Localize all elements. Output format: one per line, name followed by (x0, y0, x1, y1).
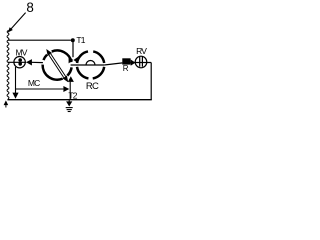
svg-text:MV: MV (16, 47, 28, 57)
svg-text:MC: MC (28, 78, 40, 88)
svg-text:8: 8 (26, 0, 33, 15)
svg-text:RV: RV (136, 46, 147, 56)
svg-text:RC: RC (86, 81, 99, 92)
svg-text:T1: T1 (76, 35, 85, 45)
svg-text:T2: T2 (68, 90, 77, 100)
